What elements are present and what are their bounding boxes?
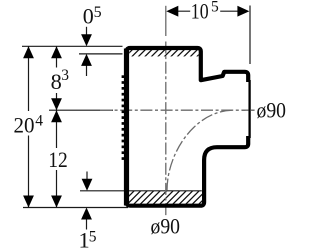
arrow 1.5 upper (down) with shaft <box>86 172 88 180</box>
arrow 12 bottom <box>51 196 62 208</box>
svg-text:12: 12 <box>48 147 67 172</box>
arrow 20.4 top <box>23 46 34 58</box>
left wall extra thickness <box>124 49 129 206</box>
arrow 1.5 lower (up) with shaft <box>86 219 88 230</box>
arrow 12 top <box>51 110 62 122</box>
extension line mid y=110.2 <box>49 109 113 111</box>
svg-text:20: 20 <box>14 113 35 138</box>
svg-text:10: 10 <box>191 0 209 24</box>
centerline flow arc <box>167 110 233 190</box>
arrow 8.3 bottom <box>51 98 62 110</box>
fitting body fill <box>127 48 249 206</box>
svg-text:3: 3 <box>61 67 69 84</box>
centerline horizontal y=110.2 <box>100 109 255 111</box>
fitting outline <box>127 48 249 206</box>
centerline vertical x=165.8 <box>165 6 167 36</box>
hatch strip boundary / 1.5 extension line y=190.8 <box>80 190 202 192</box>
hatch top cut strip <box>129 50 198 57</box>
svg-text:5: 5 <box>211 0 219 16</box>
dimension line 8.3/12 x=56.5 <box>56 46 58 207</box>
extension line right x=250 <box>249 6 251 65</box>
arrow 20.4 bottom <box>23 196 34 208</box>
hatch bottom cut strip <box>129 191 202 204</box>
svg-text:5: 5 <box>89 229 97 246</box>
svg-text:5: 5 <box>94 4 102 21</box>
right face middle thinning patch <box>245 82 252 136</box>
wall ribs (teeth) <box>122 75 125 160</box>
extension line bottom y=207.5 <box>23 207 128 209</box>
arrow 10.5 left <box>166 6 178 17</box>
svg-text:8: 8 <box>51 69 62 94</box>
svg-text:ø90: ø90 <box>151 214 181 239</box>
arrow 10.5 right <box>237 6 249 17</box>
dimension line 20.4 x=28.5 <box>28 46 30 207</box>
arrow 0.5 lower (up) with shaft <box>86 66 88 77</box>
extension line 0.5 lower y=53.9 <box>79 53 123 55</box>
extension line top surface y=46.3 <box>22 45 123 47</box>
svg-text:0: 0 <box>83 3 94 28</box>
arrow 8.3 top <box>51 46 62 58</box>
arrow 0.5 upper (down) with shaft <box>86 27 88 35</box>
svg-text:4: 4 <box>35 113 43 130</box>
dimension 10.5 line y=11.2 <box>172 10 244 12</box>
svg-text:ø90: ø90 <box>257 97 287 122</box>
